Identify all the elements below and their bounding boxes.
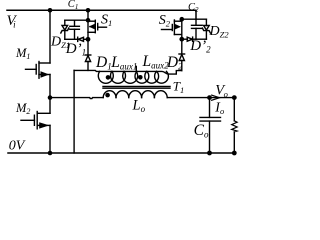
node bottom rail M2 (48, 151, 53, 156)
svg-text:D’1: D’1 (65, 41, 86, 58)
wire clamp1 bottom (65, 38, 78, 40)
svg-text:C2: C2 (188, 2, 199, 14)
wire M1 source to mid node (49, 75, 51, 114)
wire M leg upper (49, 10, 51, 63)
node output corner (232, 95, 237, 100)
transistor M2 (21, 112, 50, 129)
svg-text:Vo: Vo (215, 83, 228, 100)
svg-text:S2: S2 (159, 13, 171, 29)
wire Lo to output (167, 97, 234, 99)
svg-text:Laux2: Laux2 (142, 53, 170, 71)
svg-text:D’2: D’2 (189, 38, 211, 55)
node load bottom (232, 151, 237, 156)
svg-text:Io: Io (214, 100, 224, 116)
inductor Lo (103, 91, 167, 98)
svg-text:M2: M2 (15, 101, 30, 116)
zener DZ2 (202, 19, 210, 39)
svg-text:Laux1: Laux1 (110, 54, 137, 72)
node Co bottom (207, 151, 212, 156)
node Lo polarity dot (105, 93, 110, 98)
wire freewheel leg to 0V (73, 70, 75, 153)
transistor M1 (26, 62, 51, 79)
zener DZ1 (61, 20, 69, 39)
capacitor C2 (192, 19, 203, 39)
svg-text:Vi: Vi (7, 13, 18, 30)
node clamp1 bottom (86, 37, 91, 42)
node Laux2 polarity dot (138, 75, 143, 80)
transistor S1 (88, 20, 107, 33)
node Laux1 polarity dot (106, 75, 111, 80)
transformer T1 core (103, 86, 170, 88)
svg-text:S1: S1 (101, 13, 112, 29)
svg-text:T1: T1 (173, 78, 184, 95)
diode D'1 (78, 37, 88, 41)
wire switch node to Lo (50, 98, 103, 99)
inductor Laux2 (135, 71, 168, 83)
node output top (207, 95, 212, 100)
capacitor Co (200, 98, 221, 153)
node top rail clamp1 branch (86, 8, 91, 13)
wire clamp2 top (182, 18, 207, 20)
node M1 M2 midpoint (48, 95, 53, 100)
node top rail M1 branch (48, 8, 53, 13)
wire S2 bus (181, 19, 183, 54)
resistor load (232, 98, 237, 153)
inductor Laux1 (98, 71, 137, 83)
capacitor C1 (70, 20, 80, 39)
wire center tap stub (135, 66, 137, 71)
diode D'2 (182, 37, 207, 41)
wire clamp1 top (65, 19, 88, 21)
node clamp1 top (86, 18, 91, 23)
svg-text:M1: M1 (15, 46, 30, 61)
svg-text:DZ2: DZ2 (209, 24, 230, 40)
svg-text:D1: D1 (95, 54, 112, 72)
svg-text:0V: 0V (9, 138, 26, 153)
diode D1 (85, 55, 91, 70)
node clamp2 bottom (179, 37, 184, 42)
winding top line (74, 70, 182, 74)
svg-text:Co: Co (194, 122, 209, 140)
node clamp2 top (180, 17, 185, 22)
diode D2 (179, 54, 185, 71)
wire bottom rail 0V (8, 152, 234, 154)
transistor S2 (162, 20, 182, 35)
wire clamp1 bus (87, 10, 89, 55)
svg-text:C1: C1 (68, 0, 79, 11)
wire top rail Vi (7, 10, 196, 19)
arrow Io current (212, 95, 220, 100)
wire M2 source to bottom rail (49, 125, 51, 153)
svg-text:Lo: Lo (132, 98, 146, 115)
